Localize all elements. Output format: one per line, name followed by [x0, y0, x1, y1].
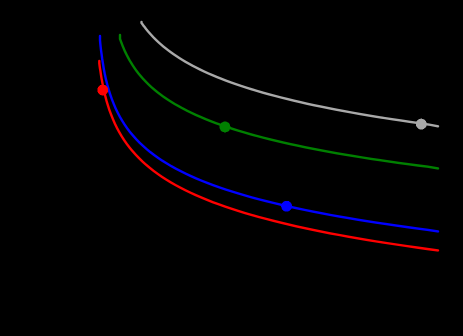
curve series-green (dark green) point marker	[220, 122, 231, 133]
curve series-green (dark green) line	[120, 35, 438, 168]
curve series-blue point marker	[281, 201, 292, 212]
curve series-red point marker	[97, 85, 108, 96]
curve series-red line	[99, 61, 438, 250]
curve series-blue line	[100, 36, 438, 231]
curve series-gray (light gray) line	[142, 22, 439, 126]
curve series-gray (light gray) point marker	[416, 119, 427, 130]
